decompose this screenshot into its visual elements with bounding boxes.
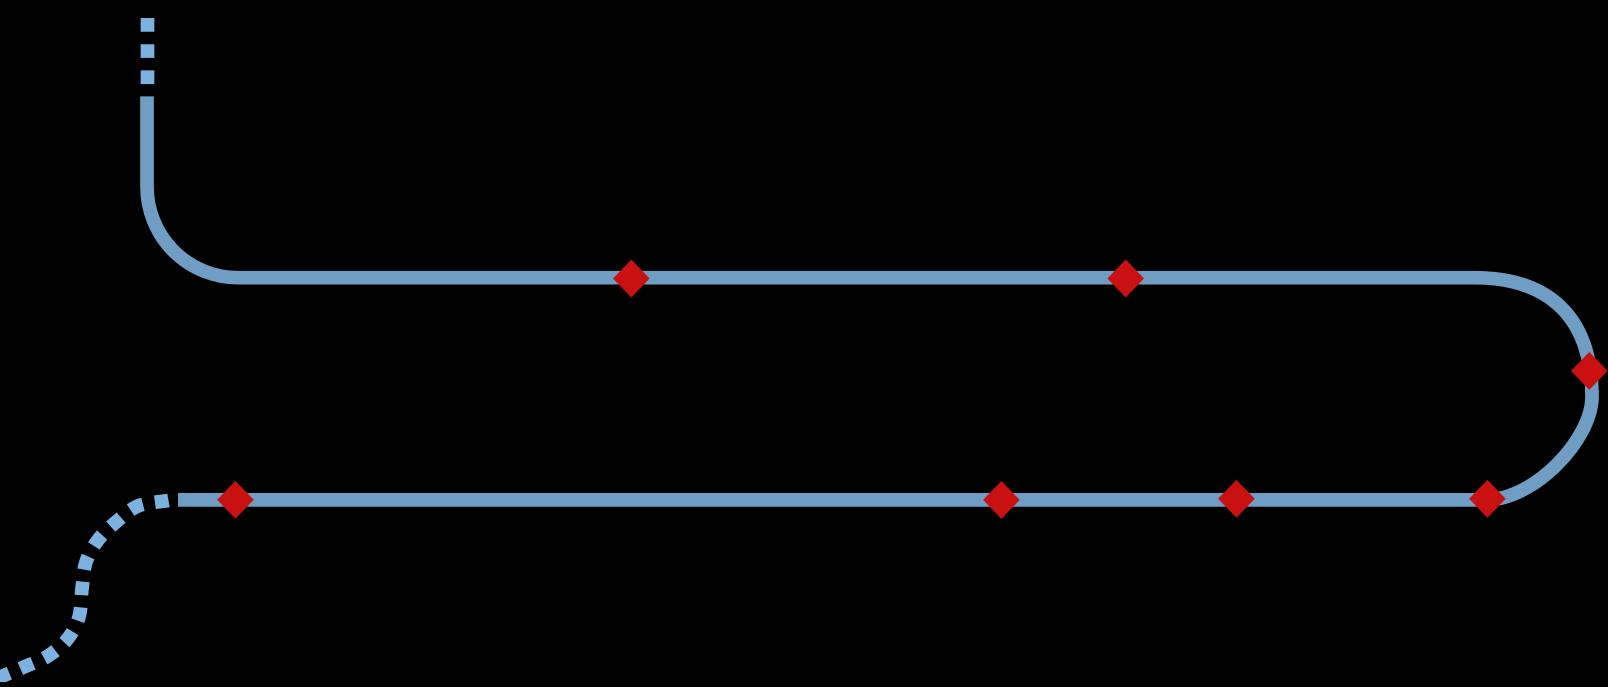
milestone diamond 7 (bottom line, near curve) [1469, 480, 1506, 518]
milestone diamond 5 (bottom line) [983, 481, 1020, 519]
milestone diamond 2 (top line) [1107, 260, 1144, 298]
dashed lead-in line (top) [141, 18, 155, 97]
milestone diamond 3 (right curve) [1571, 352, 1608, 390]
main route line (solid snake) [147, 96, 1592, 500]
milestone diamond 1 (top line) [613, 260, 650, 298]
milestone diamond 6 (bottom line) [1218, 480, 1255, 518]
dashed tail curve (bottom-left) [0, 501, 169, 685]
milestone diamond 4 (bottom line, leftmost) [217, 481, 254, 519]
